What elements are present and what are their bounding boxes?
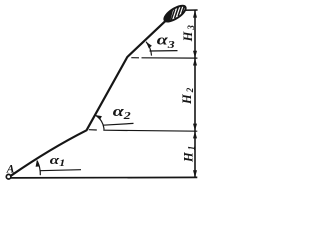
svg-text:A: A — [6, 164, 15, 176]
